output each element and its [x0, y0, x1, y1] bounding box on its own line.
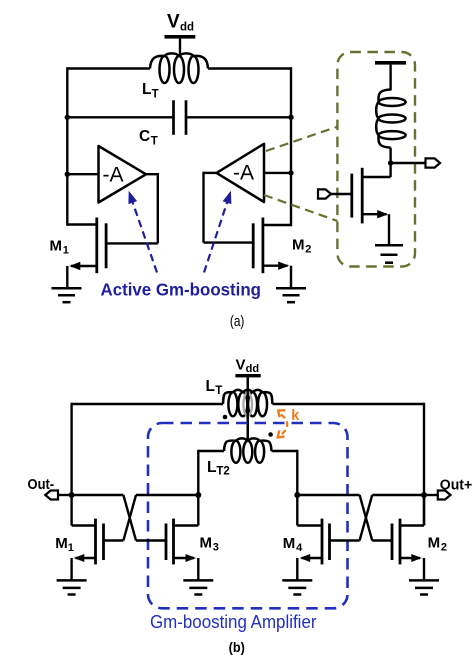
dashed inset box (a)	[337, 52, 415, 267]
wire Vdd stem (a)	[179, 39, 181, 56]
node dots (b)	[69, 492, 75, 498]
capacitor CT (a)	[67, 116, 173, 118]
svg-text:L: L	[142, 81, 151, 98]
wire amp2 output loop	[204, 172, 217, 174]
port Out-	[45, 491, 58, 500]
wire top rail left (b)	[72, 403, 223, 405]
inset gate wire	[331, 193, 352, 195]
svg-text:M: M	[283, 535, 296, 552]
op-amp A2 (right -A amplifier)	[217, 144, 265, 202]
svg-text:Active Gm-boosting: Active Gm-boosting	[101, 280, 262, 300]
cross-coupling X left	[123, 495, 136, 541]
svg-text:T: T	[152, 88, 159, 100]
wire amp2 input	[264, 172, 291, 174]
wire top rail right (b)	[272, 403, 424, 405]
pointer line lower (olive dashed)	[264, 195, 338, 221]
svg-text:M: M	[200, 535, 213, 552]
svg-text:1: 1	[63, 245, 69, 257]
svg-text:2: 2	[305, 244, 311, 256]
pointer line upper (olive dashed)	[266, 127, 338, 152]
power Vdd bar (b)	[235, 374, 260, 377]
inset output wire	[391, 162, 425, 164]
svg-text:-A: -A	[103, 164, 124, 187]
wire top rail left (a)	[67, 67, 150, 69]
svg-text:(a): (a)	[230, 313, 245, 330]
svg-text:3: 3	[213, 542, 219, 554]
svg-text:V: V	[167, 12, 180, 33]
transistor M1 (b)	[94, 519, 97, 565]
ground below M4	[282, 579, 312, 582]
wire amp1 output loop	[146, 173, 158, 175]
transistor M1 (a)	[95, 218, 98, 274]
svg-text:C: C	[139, 128, 150, 145]
svg-text:-A: -A	[233, 162, 254, 185]
svg-text:L: L	[206, 378, 215, 395]
node dots (a)	[65, 115, 70, 120]
wire left vertical (a)	[66, 67, 68, 225]
wire drain rail segments (b)	[72, 494, 124, 496]
svg-text:L: L	[207, 459, 216, 476]
inset node dot	[388, 160, 393, 165]
wire right outer vertical (b)	[423, 403, 425, 526]
transistor M2 (a)	[261, 218, 264, 274]
svg-text:M: M	[55, 535, 68, 552]
power Vdd bar (a)	[165, 35, 196, 39]
svg-text:T: T	[151, 136, 158, 148]
transistor M3 (b)	[172, 519, 175, 565]
ground below M3	[183, 579, 213, 582]
ground below M2 (a)	[276, 287, 306, 290]
inset input port	[318, 189, 331, 198]
inset transistor	[361, 168, 364, 224]
inset output port	[426, 158, 441, 167]
transistor M4 (b)	[321, 519, 324, 565]
svg-text:dd: dd	[180, 22, 194, 34]
wire amp1 input	[67, 173, 98, 175]
svg-text:M: M	[50, 238, 63, 255]
inductor LT (a)	[150, 53, 208, 68]
svg-text:dd: dd	[246, 363, 259, 375]
coupling arrow k (orange dashed)	[281, 415, 287, 435]
wire LT2 left stub	[198, 450, 224, 452]
svg-text:T2: T2	[216, 466, 229, 478]
svg-text:2: 2	[441, 542, 447, 554]
gray center loop artifact	[243, 393, 252, 416]
coupling dot right	[268, 432, 273, 437]
wire left outer vertical (b)	[70, 403, 72, 526]
wire top rail right (a)	[208, 67, 291, 69]
inset inductor (vertical coil)	[376, 90, 390, 148]
wire center tap lower	[246, 377, 248, 440]
cross-coupling X right	[360, 495, 373, 541]
svg-text:1: 1	[68, 542, 74, 554]
svg-text:M: M	[292, 237, 305, 254]
svg-text:Gm-boosting Amplifier: Gm-boosting Amplifier	[150, 612, 317, 632]
svg-text:T: T	[215, 385, 222, 397]
inset wire below coil	[389, 148, 391, 163]
wire center tap	[246, 377, 248, 440]
inductor LT (b) primary	[223, 390, 272, 404]
annotation arrow right (blue dashed)	[204, 202, 227, 272]
svg-text:4: 4	[296, 542, 303, 554]
transistor M2 (b)	[399, 519, 402, 565]
inductor LT2 secondary	[224, 438, 272, 451]
svg-text:M: M	[428, 535, 441, 552]
svg-text:V: V	[236, 357, 246, 374]
ground below M2 (b)	[409, 579, 439, 582]
wire LT2 right stub	[272, 450, 298, 452]
inset ground	[375, 244, 403, 247]
ground below M1 (b)	[57, 579, 87, 582]
op-amp A1 (left -A amplifier)	[99, 146, 147, 203]
wire Out+ stub	[424, 494, 438, 496]
inset power bar	[375, 61, 406, 65]
annotation arrow left (blue dashed)	[133, 202, 157, 272]
svg-text:k: k	[291, 408, 300, 424]
wire Out- stub	[58, 494, 72, 496]
svg-text:(b): (b)	[229, 639, 245, 655]
dashed Gm-boosting box (b)	[148, 423, 348, 608]
inset wire stem	[389, 65, 391, 91]
coupling dot left	[223, 415, 228, 420]
wire right vertical (a)	[290, 67, 292, 226]
ground below M1 (a)	[52, 287, 82, 290]
port Out+	[438, 491, 451, 500]
